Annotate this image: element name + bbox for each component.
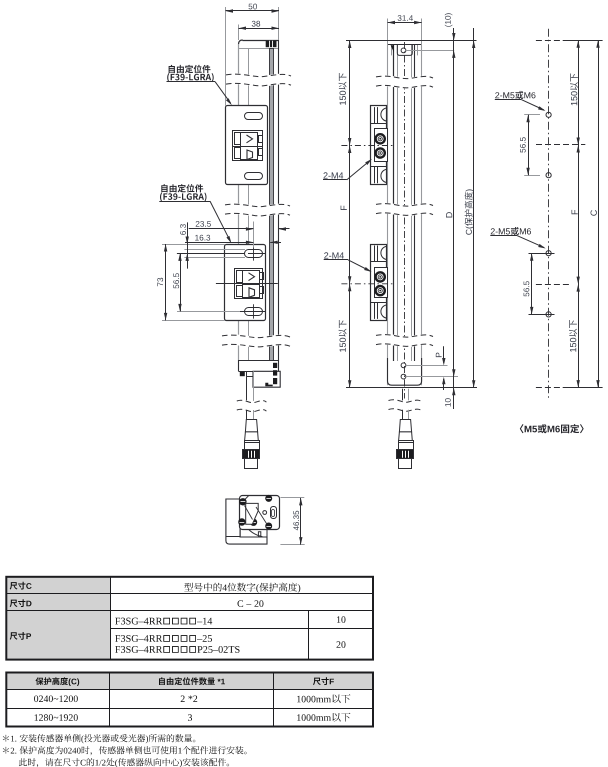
top view linkage lines [245, 506, 253, 520]
dim 46.35 ext lines [280, 497, 304, 499]
C dim line [473, 28, 475, 388]
cable break left [237, 405, 267, 407]
P dim arrows [443, 346, 445, 363]
front view body [388, 45, 422, 386]
cable housing [253, 371, 280, 387]
front top screw [401, 48, 406, 53]
dim 50 [226, 10, 280, 12]
bracket2 bottom slot ext line [177, 311, 240, 313]
table1 value 10 [337, 616, 346, 623]
label 2-M4 lower [324, 252, 344, 258]
left view top cap black detail [266, 41, 277, 47]
right bottom tick [536, 387, 561, 389]
table2 outer border [6, 673, 373, 727]
dim 23.5 [253, 222, 255, 248]
bracket2 clamp mid blocks [243, 271, 260, 285]
bracket2 top slot [245, 250, 263, 258]
bracket1 clamp left bars [235, 133, 241, 145]
top view L-plate [226, 499, 267, 544]
right bottom datum [563, 387, 603, 389]
footnote 2 [3, 746, 247, 755]
left view rail [270, 49, 274, 361]
leader to bracket2 [210, 201, 230, 241]
hole M5 #4 [546, 312, 551, 317]
cable left view [246, 376, 248, 401]
left view sensor body [239, 40, 279, 371]
table2 header bg [6, 673, 373, 690]
connector knurl left [243, 450, 260, 459]
left view right edge [278, 40, 280, 371]
label 2-M5/M6 lower [491, 227, 531, 235]
front break upper [376, 81, 433, 84]
housing corner mark [265, 383, 272, 387]
right dim chain 150/F [578, 40, 580, 387]
table1 value 20 [337, 641, 346, 648]
right dim line D and 10s [453, 28, 455, 409]
dim 56.5 right lower [531, 253, 533, 314]
top view jaw polygon [246, 503, 259, 524]
bracket2 right tabs [260, 273, 264, 280]
dim 6.3 [187, 222, 189, 268]
bracket2 clamp outline [235, 269, 263, 299]
top view bracket group [226, 495, 280, 544]
break band lower left view [222, 340, 290, 343]
front break mid [376, 208, 433, 211]
bracket1 clamp jaw marks [247, 135, 253, 143]
table2 row1 [34, 696, 78, 703]
top view screw BL2 [250, 519, 257, 526]
dim 50 extension lines [225, 7, 227, 106]
dim 73 [165, 244, 167, 320]
table2 headers [36, 677, 80, 686]
table1 row1 content [184, 583, 300, 593]
front view bottom cap [388, 358, 422, 385]
front cable [402, 389, 404, 401]
label 2-M5/M6 upper [495, 91, 535, 99]
front cable break [389, 404, 422, 406]
dim 31.4 [388, 22, 422, 24]
dim 16.3 [185, 242, 253, 244]
hole M5 #2 [546, 173, 551, 178]
bracket2 center tick right [536, 284, 570, 286]
front connector knurl [397, 450, 414, 459]
leader to bracket1 [215, 82, 231, 104]
bracket1 clamp mid blocks [241, 133, 258, 147]
bracket2 slot1 ext lines [184, 249, 245, 251]
footnote 1 [3, 734, 195, 743]
ref line bottom screw1 [406, 365, 448, 367]
left dim chain [349, 41, 351, 388]
break band upper left view [226, 79, 291, 82]
bracket F39-LGRA upper (side view) [226, 106, 268, 185]
footnote 3 [19, 758, 229, 767]
hole M5 #1 [546, 112, 551, 117]
top view screw TR [265, 495, 272, 502]
top datum line [346, 40, 477, 42]
connector front view [399, 420, 411, 432]
top view small hole [263, 511, 267, 515]
dim 56.5 right upper [528, 115, 530, 175]
front bottom screws [401, 363, 406, 368]
ref line bottom screw2 [406, 376, 458, 378]
dim 46.35 [300, 498, 302, 545]
bottom datum line [346, 387, 477, 389]
table1 row4 content [115, 635, 212, 642]
table1 col line [110, 577, 112, 660]
bracket1 right tabs [259, 136, 263, 143]
dim 38 extension line [238, 25, 240, 41]
top view chamfer [240, 495, 249, 504]
top view side slot [271, 507, 277, 519]
table2 col lines [109, 673, 111, 727]
top view screw TL [239, 498, 246, 505]
top view foot [240, 529, 267, 537]
break band mid left view [225, 209, 290, 212]
table1 row2 content [238, 600, 264, 607]
top view screw BL1 [238, 518, 245, 525]
table1 row lines [6, 593, 373, 595]
table2 row2 [35, 714, 78, 721]
dim 56.5 left [180, 253, 182, 311]
dim 38 [239, 28, 280, 30]
hole M5 #3 [546, 251, 551, 256]
right view centerline [548, 29, 550, 398]
label 2-M4 upper [324, 172, 344, 178]
bracket2 clamp centerline [216, 283, 278, 285]
bracket2 clamp jaw marks [249, 273, 255, 281]
bracket1 clamp outline [233, 131, 263, 161]
bracket F39-LGRA lower (side view) [225, 245, 266, 321]
label F39-LGRA lower [161, 184, 203, 192]
table1 value col line [308, 611, 310, 660]
left view bottom housing [239, 360, 279, 362]
caption M5/M6 fixing [520, 424, 584, 433]
bracket2 bottom edge ext [162, 320, 225, 322]
table1 row labels [10, 582, 32, 590]
bracket1 top slot [245, 113, 263, 120]
connector left view [245, 420, 257, 432]
right dim C [598, 40, 600, 387]
bracket2 clamp left bars [237, 271, 243, 283]
bracket2 front view [371, 245, 387, 321]
front view centerline [404, 42, 406, 399]
bracket1 front view [371, 106, 387, 185]
table2 row lines [6, 689, 373, 691]
ref line from top screw [406, 50, 454, 52]
label F39-LGRA upper [169, 65, 211, 73]
front break lower [376, 339, 433, 342]
dim 31.4 ext lines [387, 19, 389, 46]
bracket1 center tick right [536, 144, 585, 146]
front top-left wedge [391, 45, 394, 53]
bracket1 bottom slot [245, 173, 263, 180]
table1 outer border [6, 577, 373, 660]
rail end marks [273, 363, 277, 368]
top view main body [240, 496, 280, 530]
bracket2 bottom slot [245, 308, 263, 316]
right top datum [563, 40, 603, 42]
table1 header bg [6, 577, 111, 660]
bracket2 top edge extension [162, 244, 225, 246]
right top tick [536, 40, 561, 42]
top view screw BR [265, 523, 272, 530]
table1 row3 content [115, 618, 212, 625]
front top tab [397, 45, 412, 55]
